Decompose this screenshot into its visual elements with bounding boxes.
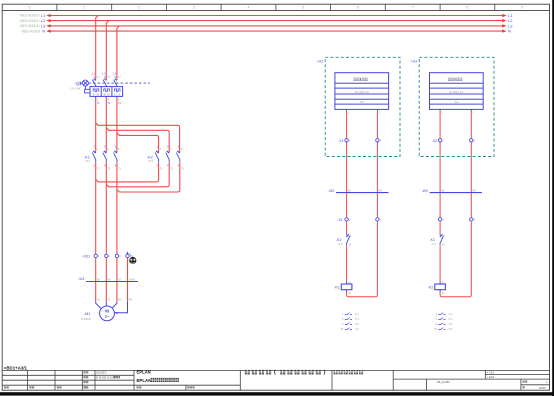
mounting location box +A3	[411, 57, 494, 156]
svg-text:/5.2: /5.2	[355, 323, 360, 326]
Q1 thermal overload box	[90, 87, 123, 97]
svg-text:/5.5: /5.5	[149, 159, 154, 163]
terminal X1:1 col2	[438, 218, 441, 221]
svg-text:/5.1: /5.1	[355, 318, 360, 321]
contactor K2 pole 1	[155, 151, 159, 163]
wire col1 coil return loop	[347, 221, 378, 297]
Q1 thermal element 3	[115, 89, 121, 92]
wire terminal3 to motor	[116, 258, 118, 302]
company name (CJK blobs)	[245, 370, 325, 375]
Q1 pole 2 contact	[103, 79, 107, 87]
Q1 pole 1 contact	[92, 79, 96, 87]
window edge bars	[552, 0, 554, 396]
node labels right L1 L2 L3 N	[508, 13, 513, 34]
Q1 thermal element 2	[104, 89, 110, 92]
svg-text:=BD1+A3/1: =BD1+A3/1	[4, 365, 28, 370]
wire drop L3 to Q1	[117, 26, 120, 79]
svg-text:1.9-2.8A: 1.9-2.8A	[69, 87, 80, 91]
wire col2 coil return loop	[440, 221, 471, 297]
wire terminal1 to motor	[95, 258, 97, 302]
svg-text:-W3: -W3	[422, 189, 428, 193]
mouse cursor icon	[129, 253, 136, 264]
svg-text:GY: GY	[118, 279, 122, 281]
contact mirror table K2	[434, 313, 453, 332]
svg-text:PE: PE	[130, 255, 134, 258]
PLC box col2 pin stubs	[439, 109, 441, 111]
terminal XD1:3	[115, 254, 118, 257]
wire col1 right down	[376, 111, 378, 217]
wire phase2 to terminal	[105, 162, 107, 254]
PLC box col1 pin stubs	[346, 109, 348, 111]
wire phase3 to terminal	[116, 162, 118, 254]
svg-text:-K2: -K2	[147, 154, 154, 159]
coil K1	[334, 281, 352, 294]
svg-text:-K3: -K3	[359, 100, 364, 104]
wire col2 right down	[470, 111, 472, 217]
svg-text:1.3: 1.3	[113, 72, 117, 75]
motor connection leads	[96, 301, 128, 312]
wire K2 pole2 merge to phase2	[106, 162, 169, 186]
cable W1 conductor labels	[97, 279, 136, 281]
wire phase3 down to K1 pole3	[116, 98, 118, 151]
terminal pin labels	[98, 255, 133, 258]
svg-text:-M1: -M1	[84, 311, 92, 316]
svg-text:-K4: -K4	[454, 100, 459, 104]
svg-text:1: 1	[83, 6, 85, 10]
source reference texts left	[19, 14, 40, 34]
svg-text:7: 7	[412, 6, 414, 10]
svg-text:-W2: -W2	[328, 189, 334, 193]
wire col1 contact to coil	[346, 246, 348, 282]
cable W2	[328, 189, 389, 193]
terminal A2-X1:2	[376, 139, 379, 142]
svg-text:-K2: -K2	[427, 286, 433, 290]
svg-text:W-GB1;A0: W-GB1;A0	[355, 90, 370, 94]
svg-text:3: 3	[193, 6, 195, 10]
svg-text:/5.2: /5.2	[355, 328, 360, 331]
contactor K1 pole 1	[92, 151, 96, 163]
coil K2	[427, 281, 445, 294]
svg-text:=BD1+A3/5.8 /: =BD1+A3/5.8 /	[19, 14, 40, 18]
auxiliary contact -K2 col1	[346, 234, 350, 246]
svg-text:/1.4: /1.4	[431, 242, 436, 246]
svg-text:4: 4	[248, 6, 250, 10]
wire col2 contact to coil	[439, 246, 441, 282]
auxiliary contact -K1 col2	[440, 234, 444, 246]
svg-text:/5.4: /5.4	[449, 313, 454, 316]
right fields	[437, 370, 495, 384]
wire terminal2 to motor	[105, 258, 107, 302]
svg-text:-X1: -X1	[337, 218, 342, 222]
title block small field labels (CJK blobs)	[4, 371, 195, 388]
PLC box col2 texts	[448, 78, 462, 81]
wire drop L1 to Q1	[96, 16, 99, 79]
svg-text:GNYE: GNYE	[129, 279, 136, 281]
PLC output box col1	[335, 73, 389, 110]
wire Q1 pole1 bottom stub	[95, 96, 97, 98]
svg-text:E-SHGB GU21: E-SHGB GU21	[96, 376, 115, 380]
cable W3	[422, 189, 482, 193]
wire Q1 pole2 bottom stub	[105, 96, 107, 98]
svg-text:26/26: 26/26	[539, 386, 546, 390]
svg-text:BK: BK	[348, 191, 352, 193]
wire phase2 down to K1 pole2	[105, 98, 107, 151]
wire branch phase3 to K2 pole1	[117, 133, 159, 151]
svg-text:9: 9	[521, 6, 523, 10]
PE source arrow	[126, 251, 128, 254]
terminal XD1:PE	[126, 254, 129, 257]
contactor K1 pole 2	[103, 151, 107, 163]
svg-text:PE: PE	[129, 299, 133, 302]
svg-text:+A2: +A2	[317, 59, 324, 63]
wire col1 left down	[346, 111, 348, 217]
drawing title (CJK blobs)	[334, 370, 364, 374]
node labels left L1 L2 L3 N	[41, 13, 46, 34]
wire col2 left terminal to contact	[439, 221, 441, 234]
svg-text:6: 6	[357, 6, 359, 10]
Q1 pin labels top	[93, 75, 116, 79]
wire PE to motor	[127, 258, 129, 302]
svg-text:/5.2: /5.2	[86, 159, 91, 163]
svg-text:BN: BN	[473, 191, 477, 193]
svg-text:2023/5/3: 2023/5/3	[96, 371, 107, 375]
svg-text:5: 5	[302, 6, 304, 10]
frame column dividers	[57, 4, 495, 10]
wire K2 pole3 merge to phase3	[117, 162, 180, 192]
svg-text:L2: L2	[508, 18, 513, 23]
wire L2 bus	[46, 19, 506, 22]
PLC box col1 texts	[353, 78, 367, 81]
svg-text:=BD1+A3/5.8 /: =BD1+A3/5.8 /	[19, 19, 40, 23]
svg-text:BN: BN	[108, 279, 112, 281]
Q1 pin labels bottom	[97, 97, 120, 101]
title block grid	[2, 370, 549, 390]
wire L1 bus	[46, 14, 506, 17]
svg-text:-Q1: -Q1	[75, 81, 83, 86]
terminal A2-X1:1	[345, 139, 348, 142]
cable W1	[78, 277, 138, 281]
motor terminal labels	[97, 299, 132, 302]
svg-text:1.2: 1.2	[102, 72, 106, 75]
mounting location box +A2	[317, 57, 400, 156]
terminal XD1:1	[94, 254, 97, 257]
svg-text:N: N	[508, 29, 511, 34]
svg-text:1.1: 1.1	[91, 72, 95, 75]
svg-text:+ EA2: + EA2	[487, 375, 495, 379]
svg-text:2: 2	[138, 6, 140, 10]
Q1 thermal element 1	[93, 89, 99, 92]
svg-text:-K1: -K1	[84, 154, 91, 159]
svg-text:/5.5: /5.5	[449, 323, 454, 326]
svg-text:= CA1: = CA1	[487, 370, 495, 374]
terminal A3-X2:2	[470, 139, 473, 142]
wire col1 left terminal to contact	[346, 221, 348, 234]
svg-text:0.25kW: 0.25kW	[81, 317, 91, 321]
svg-text:8: 8	[466, 6, 468, 10]
svg-text:3~: 3~	[105, 314, 110, 319]
contact mirror table K1	[341, 313, 360, 332]
contactor K2 pin labels	[156, 145, 179, 149]
svg-text:-X1: -X1	[338, 139, 343, 143]
svg-text:L2: L2	[41, 18, 46, 23]
terminal X1:2 col1	[376, 218, 379, 221]
svg-text:/5.1: /5.1	[355, 313, 360, 316]
wire phase1 to terminal	[95, 162, 97, 254]
svg-text:0: 0	[29, 6, 31, 10]
wire branch phase1 to K2 pole3	[96, 123, 180, 151]
motor M1	[100, 306, 115, 321]
svg-text:=BD1+A3/5.8 /: =BD1+A3/5.8 /	[19, 24, 40, 28]
frame column numbers	[29, 6, 524, 10]
wire K2 pole1 merge to phase1	[96, 162, 159, 182]
terminal X1:2 col2	[470, 218, 473, 221]
wire branch phase2 to K2 pole2	[106, 128, 169, 151]
svg-text:-W1: -W1	[78, 277, 85, 281]
svg-text:BK: BK	[97, 279, 101, 281]
contactor K2 pole 3	[176, 151, 180, 163]
wire Q1 pole3 bottom stub	[116, 96, 118, 98]
svg-text:-K1: -K1	[334, 286, 340, 290]
svg-text:-XD1: -XD1	[82, 255, 90, 259]
svg-text:GB_tpl.083: GB_tpl.083	[437, 380, 451, 384]
svg-text:/1.5: /1.5	[338, 242, 343, 246]
Q1 pole 3 contact	[114, 79, 118, 87]
svg-text:-X2: -X2	[432, 139, 437, 143]
svg-text:N: N	[42, 29, 45, 34]
svg-text:EPLAN: EPLAN	[137, 369, 151, 374]
terminal X1:1 col1	[345, 218, 348, 221]
wire N bus	[46, 30, 506, 33]
wire col2 left down	[439, 111, 441, 217]
svg-text:-K1: -K1	[429, 238, 435, 242]
svg-text:W-GB1;A1: W-GB1;A1	[449, 90, 464, 94]
svg-text:EPLAN: EPLAN	[137, 378, 152, 383]
terminal A3-X2:1	[438, 139, 441, 142]
wire drop L2 to Q1	[106, 21, 109, 79]
contactor K1 pole 3	[114, 151, 118, 163]
Q1 cell bottom marks	[93, 93, 118, 96]
svg-text:=BD1+A3/5.8: =BD1+A3/5.8	[21, 29, 40, 33]
contactor K1 pin labels	[94, 145, 117, 149]
wire phase1 down to K1 pole1	[95, 98, 97, 151]
svg-text:+A3: +A3	[411, 59, 418, 63]
svg-text:BK: BK	[441, 191, 445, 193]
PLC output box col2	[430, 73, 484, 110]
svg-text:BN: BN	[379, 191, 383, 193]
svg-text:/5.5: /5.5	[449, 328, 454, 331]
terminal XD1:2	[105, 254, 108, 257]
svg-text:/5.4: /5.4	[449, 318, 454, 321]
contactor K2 pole 2	[166, 151, 170, 163]
svg-text:M: M	[105, 308, 109, 313]
svg-text:-K2: -K2	[336, 238, 342, 242]
breaker Q1	[80, 80, 150, 93]
wire L3 bus	[46, 24, 506, 27]
